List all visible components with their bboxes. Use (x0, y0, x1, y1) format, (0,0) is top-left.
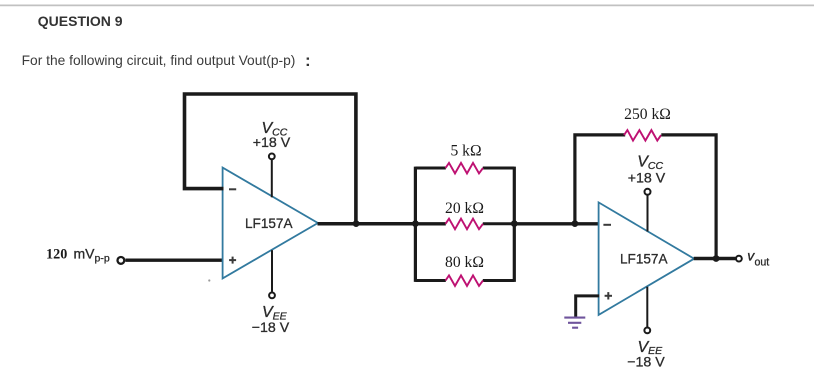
svg-text:5 kΩ: 5 kΩ (450, 143, 481, 160)
wire: U1 feedback loop (output to inverting input) (185, 94, 356, 224)
wire: U2 output to vout terminal (694, 257, 736, 260)
wire: input to U1 noninverting input (125, 259, 223, 262)
junction: feedback tap at U2 inverting input (572, 220, 579, 227)
node A: resistor network left rail (414, 167, 417, 282)
svg-text:+18 V: +18 V (253, 135, 291, 151)
vout terminal (736, 256, 742, 262)
svg-text:+18 V: +18 V (628, 171, 666, 187)
U1 noninverting pin (+) (229, 257, 236, 264)
wire: U1 output to resistor network node A (318, 222, 416, 226)
wire: U2 feedback loop left leg and top (575, 135, 625, 224)
op-amp U2 LF157A (599, 202, 695, 315)
svg-text:For the following circuit, fin: For the following circuit, find output V… (22, 53, 296, 68)
wire: U2 feedback loop top right and right leg (661, 135, 716, 259)
resistor 20 kOhm (middle branch) (415, 222, 445, 225)
U2 inverting pin (-) (603, 224, 611, 226)
junction: node B on main wire (511, 220, 518, 227)
svg-text:LF157A: LF157A (620, 250, 668, 266)
resistor 80 kOhm (bottom branch) (415, 279, 445, 282)
Vcc supply terminal U2 (647, 196, 649, 232)
resistor 5 kOhm (top branch) (415, 167, 445, 170)
svg-text::: : (305, 51, 311, 70)
svg-text:QUESTION 9: QUESTION 9 (38, 13, 123, 29)
Vee supply terminal U1 (271, 250, 273, 292)
svg-text:120: 120 (46, 246, 67, 262)
Vcc supply terminal U1 (271, 160, 273, 197)
svg-text:250 kΩ: 250 kΩ (624, 106, 671, 123)
op-amp U1 LF157A (223, 168, 318, 279)
svg-text:80 kΩ: 80 kΩ (445, 254, 484, 271)
Vee supply terminal U2 (646, 287, 648, 328)
resistor 250 kOhm (U2 feedback) (624, 130, 661, 141)
U2 noninverting pin (+) (605, 292, 612, 299)
U1 inverting pin (-) (229, 188, 236, 190)
svg-text:out: out (755, 256, 770, 268)
ground (564, 318, 585, 328)
svg-text:−18 V: −18 V (252, 320, 290, 336)
junction: U2 output / feedback tap (713, 255, 720, 262)
wire: U2 noninverting input to ground (576, 296, 600, 317)
junction: node A on main wire (412, 220, 419, 227)
wire: node B to U2 inverting input (514, 222, 599, 225)
svg-text:−18 V: −18 V (627, 355, 665, 371)
svg-text:20 kΩ: 20 kΩ (445, 200, 484, 217)
svg-text:LF157A: LF157A (245, 215, 293, 231)
junction: U1 output / feedback tap (353, 220, 360, 227)
voltage source terminal (120 mV p-p input) (118, 257, 125, 264)
node B: resistor network right rail (513, 167, 516, 282)
